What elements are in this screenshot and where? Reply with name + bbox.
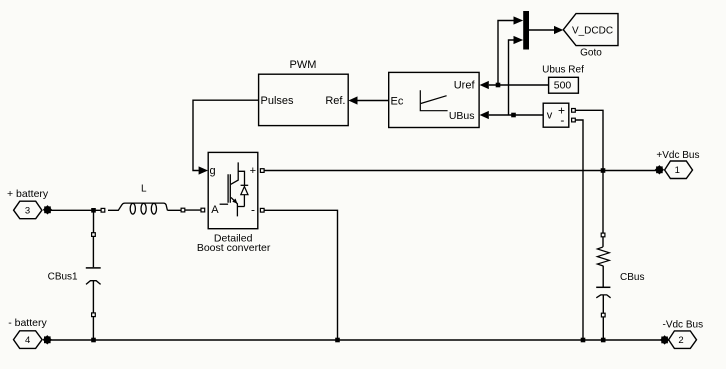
diode top lead (238, 171, 244, 185)
capacitor CBus plates (596, 286, 610, 288)
port square: boost A (201, 208, 205, 212)
controller axes glyph (420, 90, 447, 110)
IGBT collector lead (231, 162, 238, 184)
wire: UBus net (v block to controller) (489, 114, 543, 116)
arrowhead into boost gate g (199, 166, 208, 174)
terminal blob port 4 (44, 336, 51, 343)
port square: CBus1 top (92, 233, 96, 237)
junction dot bus bottom at CBus (601, 338, 606, 343)
svg-text:3: 3 (25, 205, 30, 216)
svg-text:Uref: Uref (454, 79, 476, 91)
IGBT gate bars (228, 174, 230, 203)
wire: mux output to Goto (529, 29, 554, 31)
wire: Ec output to PWM Ref input (358, 100, 389, 102)
junction dot on UBus net (511, 113, 516, 118)
arrowhead into Goto tag (554, 26, 563, 34)
junction dot bus bottom at CBus1 (91, 338, 96, 343)
terminal blob port 3 (44, 206, 51, 213)
junction dot bus bottom at v- (581, 338, 586, 343)
svg-text:+ battery: + battery (7, 188, 49, 200)
svg-text:1: 1 (675, 165, 680, 176)
wire: +Vdc bus horizontal (264, 170, 656, 172)
inductor L coil (108, 203, 167, 210)
svg-text:V_DCDC: V_DCDC (572, 25, 613, 36)
svg-text:4: 4 (25, 335, 30, 346)
arrowhead into mux input 2 (514, 36, 524, 44)
inport hexagon 3 (14, 201, 42, 219)
wire: boost minus to -Vdc bus (264, 210, 337, 340)
terminal blob port 2 (661, 337, 668, 344)
svg-text:v: v (547, 109, 553, 121)
junction dot battery+ / CBus1 (91, 208, 96, 213)
resistor zigzag of CBus branch (597, 247, 609, 266)
svg-text:Ref.: Ref. (325, 95, 345, 107)
svg-text:L: L (141, 183, 147, 194)
outport hexagon 1 (665, 161, 693, 179)
wire: Uref net (500 to controller) (489, 84, 549, 86)
IGBT emitter diagonal (231, 197, 237, 216)
junction dot bus bottom at boost minus (335, 338, 340, 343)
arrowhead into controller UBus (480, 111, 489, 119)
port square: CBus top (601, 233, 605, 237)
wire: -Vdc bottom bus horizontal (51, 339, 662, 341)
IGBT gate lead from A (220, 203, 229, 205)
svg-text:PWM: PWM (290, 59, 317, 71)
wire: CBus1 branch vertical (92, 210, 94, 340)
wire: inductor to boost A port (167, 209, 201, 211)
svg-text:+Vdc Bus: +Vdc Bus (656, 150, 699, 161)
junction dot on +Vdc bus at CBus (601, 168, 606, 173)
port square: v + (572, 109, 576, 113)
Goto tag V_DCDC outline (563, 14, 618, 46)
port square: boost + (260, 169, 264, 173)
inport hexagon 4 (14, 331, 43, 349)
block: Detailed Boost converter (208, 152, 258, 228)
svg-text:Boost converter: Boost converter (197, 242, 271, 254)
svg-text:Pulses: Pulses (261, 95, 295, 107)
wire: battery+ to inductor (51, 209, 101, 211)
svg-text:UBus: UBus (449, 110, 475, 122)
wire: v+ measurement to +Vdc bus (575, 110, 603, 170)
svg-text:CBus: CBus (620, 272, 644, 283)
svg-text:A: A (211, 204, 219, 216)
arrowhead into PWM Ref (348, 96, 357, 104)
wire: v- measurement down to -Vdc bus (575, 120, 583, 340)
IGBT bottom tie to diode (237, 206, 244, 208)
capacitor CBus1 plates (86, 267, 101, 269)
svg-text:-Vdc Bus: -Vdc Bus (663, 320, 704, 331)
port square: v - (572, 118, 576, 122)
port square: CBus1 bottom (92, 313, 96, 317)
svg-text:Ubus Ref: Ubus Ref (542, 64, 584, 75)
block: constant 500 (Ubus Ref) (549, 77, 579, 93)
block: controller (Ec/Uref/UBus) (389, 72, 479, 127)
port square: A wire end (181, 208, 185, 212)
diode triangle (241, 187, 248, 195)
mux block bar (523, 11, 529, 50)
block: voltage measurement v (543, 103, 569, 127)
wire: Uref branch up to mux input 1 (498, 21, 514, 86)
port square: inductor left (101, 208, 105, 212)
svg-text:2: 2 (678, 335, 683, 346)
svg-text:Goto: Goto (580, 47, 602, 58)
IGBT emitter arrowhead (232, 199, 237, 204)
svg-text:Ec: Ec (391, 95, 404, 107)
port square: boost - (260, 208, 264, 212)
svg-text:-: - (251, 203, 255, 217)
junction dot on Uref net (496, 83, 501, 88)
diode anode lead (243, 195, 245, 207)
svg-text:CBus1: CBus1 (48, 271, 78, 282)
wire: Pulses output to boost gate (193, 100, 258, 170)
svg-text:g: g (210, 165, 216, 177)
arrowhead into controller Uref (480, 81, 489, 89)
wire: UBus branch up to mux input 2 (509, 40, 514, 115)
port square: CBus bottom (601, 313, 605, 317)
arrowhead into mux input 1 (514, 16, 524, 24)
block: PWM generator (259, 74, 349, 125)
terminal blob port 1 (656, 166, 663, 173)
svg-text:+: + (250, 165, 256, 177)
outport hexagon 2 (669, 331, 697, 349)
diode cathode bar (241, 184, 249, 186)
wire: CBus branch vertical (602, 171, 604, 341)
svg-text:500: 500 (554, 80, 572, 92)
svg-text:- battery: - battery (8, 317, 47, 329)
svg-text:-: - (560, 113, 564, 127)
